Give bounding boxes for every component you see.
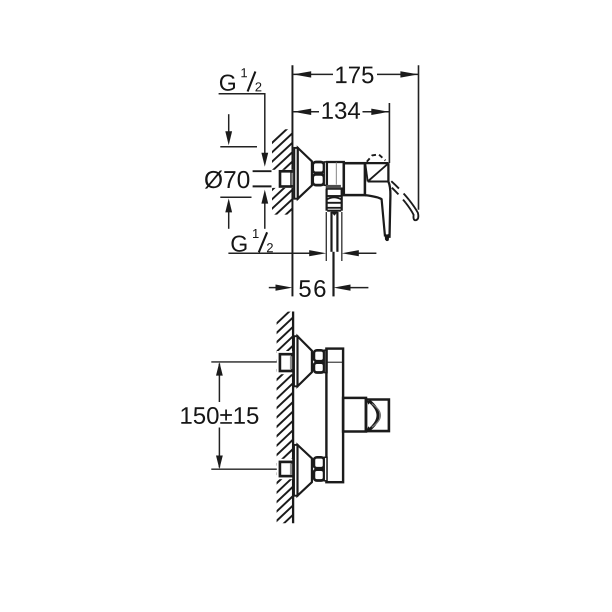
value label 150±15 [181, 407, 258, 424]
lower washer ring [324, 457, 327, 481]
outlet centre line down to 56-dim [332, 252, 334, 297]
dark joint band under body [326, 185, 341, 188]
G1/2 outlet thread dimension [228, 252, 376, 254]
value label 175 [336, 67, 373, 84]
upper escutcheon cone [298, 336, 312, 386]
union sleeve cylinder [327, 162, 344, 189]
inlet pipe (top view) [253, 170, 281, 172]
escutcheon flange (top view) [294, 148, 298, 199]
lower hex nut [314, 457, 324, 468]
washer sliver at wall [291, 173, 293, 185]
150 dim upper extension line [211, 361, 279, 363]
mixer body (bottom view) [326, 349, 343, 483]
upper washer ring [324, 350, 327, 372]
150 dim lower extension line [211, 468, 279, 470]
label Ø70 (escutcheon diameter) [205, 170, 250, 188]
value label 56 [299, 280, 325, 297]
lower escutcheon cone [298, 445, 312, 496]
label G 1/2 (wall inlet) [220, 75, 235, 91]
inlet centre line through body (upper) [327, 361, 344, 363]
upper inlet square (bottom view) [277, 351, 292, 374]
washer ring (top view) [324, 162, 327, 185]
inlet nipple square [272, 170, 293, 188]
lower escutcheon flange [294, 445, 298, 496]
outlet thread G1/2 [326, 212, 342, 296]
escutcheon cone (top view) [298, 148, 312, 199]
value label 134 [323, 102, 361, 119]
handle neck (bottom view) [343, 398, 366, 432]
leader of G 1/2 top with arrows to inlet nipple [219, 94, 265, 229]
mixer body (top view) [344, 163, 365, 195]
handle knob (bottom view) [366, 400, 389, 432]
cartridge dome [365, 163, 388, 182]
shower outlet block [327, 189, 342, 211]
wall face / left extension line (top view) [291, 65, 293, 296]
wall hatching (bottom view) [275, 308, 293, 541]
lever tip [385, 234, 390, 242]
Ø70 dimension arrows and tangent lines [220, 114, 257, 229]
upper escutcheon flange [294, 336, 298, 386]
cartridge dome flat top [365, 162, 389, 164]
dimension 175 [293, 65, 418, 210]
label G 1/2 (shower outlet) [231, 236, 246, 252]
dimension 150±15 [218, 364, 220, 468]
lever handle raised position (dashed) [367, 154, 386, 161]
lower inlet square (bottom view) [277, 459, 292, 479]
hex nut (top view) [313, 162, 324, 173]
wall face line (bottom view) [292, 312, 294, 524]
dimension 134 [293, 103, 389, 163]
upper hex nut [314, 350, 324, 361]
lever handle (solid, hanging position) [365, 195, 385, 236]
wall hatching (top view) [271, 124, 292, 247]
dimension 56 [269, 287, 369, 289]
